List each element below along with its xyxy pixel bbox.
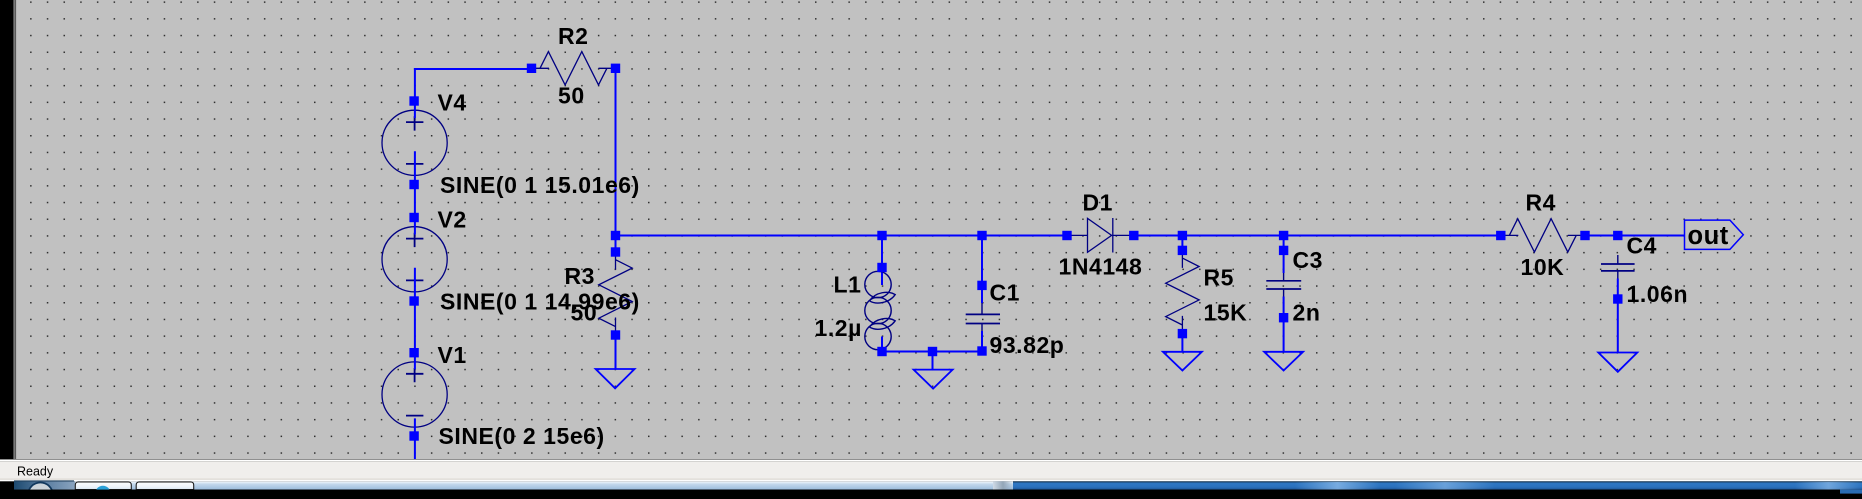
junction bus C1: [977, 231, 986, 240]
wire bus to L1: [881, 236, 883, 286]
wire V4 bottom to V2 top: [414, 185, 416, 218]
node V4 plus terminal: [409, 96, 418, 105]
start orb: [28, 483, 53, 499]
svg-text:R4: R4: [1526, 190, 1557, 216]
svg-text:C3: C3: [1293, 247, 1324, 273]
wire bus to R5 top: [1181, 236, 1183, 251]
junction bus R5: [1178, 231, 1187, 240]
taskbar button 1: [75, 482, 131, 499]
wire main bus right segment: [1585, 235, 1685, 237]
svg-text:SINE(0 1 15.01e6): SINE(0 1 15.01e6): [440, 172, 640, 198]
node D1 anode: [1062, 231, 1071, 240]
svg-text:C4: C4: [1627, 233, 1658, 259]
wire main bus left segment: [615, 235, 1068, 237]
capacitor C3: [1266, 273, 1301, 297]
wire C3 bottom to ground: [1283, 297, 1285, 352]
node C1 pin2: [977, 346, 986, 355]
junction tank ground tap: [928, 347, 937, 356]
svg-text:15K: 15K: [1204, 300, 1248, 326]
node C3 pin2: [1279, 313, 1288, 322]
taskbar: [14, 480, 1862, 499]
svg-text:D1: D1: [1083, 190, 1114, 216]
out net flag: [1685, 220, 1744, 249]
voltage source V1: [382, 353, 447, 436]
svg-text:L1: L1: [834, 272, 862, 298]
resistor R5: [1166, 250, 1199, 333]
wire V1 bottom to edge: [414, 436, 416, 460]
resistor R4: [1501, 219, 1585, 252]
junction bus R3: [611, 231, 620, 240]
wire top horizontal V4 to R2: [414, 68, 532, 70]
node R2 pin2: [611, 64, 620, 73]
junction bus L1: [877, 231, 886, 240]
dark blue right region: [1013, 481, 1862, 489]
wire bottom node to ground: [932, 352, 934, 370]
junction bus C4: [1613, 231, 1622, 240]
svg-text:V4: V4: [438, 89, 467, 115]
node V1 plus terminal: [409, 348, 418, 357]
node V2 minus terminal: [409, 296, 418, 305]
svg-text:C1: C1: [990, 280, 1021, 306]
svg-text:R5: R5: [1204, 265, 1235, 291]
svg-text:2n: 2n: [1293, 300, 1321, 326]
node V1 minus terminal: [409, 431, 418, 440]
node L1 pin2: [877, 347, 886, 356]
resistor R2: [532, 52, 616, 85]
diode D1: [1067, 218, 1134, 253]
svg-text:R2: R2: [558, 23, 589, 49]
node R4 pin1: [1496, 231, 1505, 240]
junction bus C3: [1279, 231, 1288, 240]
ground C4: [1598, 353, 1637, 372]
node R3 pin1: [611, 247, 620, 256]
bottom black: [0, 490, 1862, 499]
resistor R3: [599, 252, 632, 335]
node R2 pin1: [527, 64, 536, 73]
svg-text:10K: 10K: [1521, 254, 1565, 280]
svg-text:1N4148: 1N4148: [1059, 254, 1143, 280]
ground R3: [596, 369, 635, 388]
svg-text:V1: V1: [438, 342, 467, 368]
left window edge black strip: [0, 0, 14, 499]
svg-text:SINE(0 2 15e6): SINE(0 2 15e6): [439, 423, 605, 449]
taskbar button 2: [136, 482, 194, 490]
wire L1-C1 bottom tie: [882, 351, 982, 353]
wire C4 bottom to ground: [1617, 279, 1619, 353]
status bar: [0, 459, 1862, 481]
wire R2 right down to bus: [615, 68, 617, 236]
wire bus to C1 top: [981, 236, 983, 304]
node C4 pin2: [1613, 294, 1622, 303]
node C1 pin1: [977, 281, 986, 290]
svg-text:R3: R3: [565, 263, 596, 289]
svg-text:1.2µ: 1.2µ: [815, 315, 862, 341]
node C3 pin1: [1279, 246, 1288, 255]
wire bus to R3 top: [615, 236, 617, 253]
node V4 minus terminal: [409, 180, 418, 189]
node V2 plus terminal: [409, 213, 418, 222]
svg-text:Ready: Ready: [17, 465, 54, 479]
node R5 pin2: [1178, 329, 1187, 338]
voltage source V4: [382, 101, 447, 185]
node R5 pin1: [1178, 246, 1187, 255]
wire V2 bottom to V1 top: [414, 301, 416, 353]
inductor L1: [865, 271, 895, 349]
capacitor C1: [966, 303, 1000, 331]
node D1 cathode: [1129, 231, 1138, 240]
wire L1 bottom: [881, 337, 883, 352]
node R4 pin2: [1580, 231, 1589, 240]
svg-text:1.06n: 1.06n: [1627, 281, 1689, 307]
svg-text:SINE(0 1 14.99e6): SINE(0 1 14.99e6): [440, 289, 640, 315]
wire bus to C3 top: [1283, 236, 1285, 274]
ground L1C1: [914, 370, 953, 389]
ground R5: [1163, 352, 1202, 371]
wire V4 top vertical: [414, 68, 416, 101]
svg-text:93.82p: 93.82p: [990, 332, 1065, 358]
wire main bus mid segment: [1134, 235, 1501, 237]
voltage source V2: [382, 218, 447, 302]
wire R3 bottom to ground: [615, 335, 617, 369]
node R3 pin2: [611, 330, 620, 339]
wire R5 bottom to ground: [1181, 334, 1183, 352]
svg-text:out: out: [1688, 222, 1729, 250]
svg-text:50: 50: [558, 83, 585, 109]
ground C3: [1264, 352, 1303, 371]
left border lines: [14, 0, 15, 460]
node L1 pin1: [877, 263, 886, 272]
capacitor C4: [1601, 255, 1635, 279]
svg-text:V2: V2: [438, 207, 467, 233]
